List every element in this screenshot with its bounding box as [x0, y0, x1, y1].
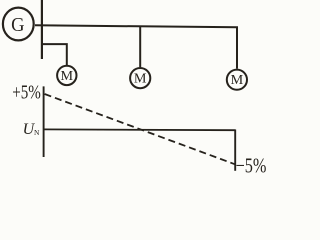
wire: left axis of voltage plot	[43, 86, 45, 157]
wire: right vertical of voltage plot	[234, 130, 236, 171]
motor M3 circle	[227, 70, 247, 90]
wire: nominal voltage UN horizontal line	[44, 128, 236, 131]
motor M1 circle	[57, 66, 76, 85]
wire: drop to motor M2	[139, 26, 141, 67]
svg-text:G: G	[11, 14, 25, 36]
motor M2 circle	[130, 68, 150, 88]
svg-text:−5%: −5%	[236, 154, 266, 177]
svg-text:M: M	[231, 72, 244, 87]
svg-text:M: M	[134, 71, 147, 86]
wire: busbar vertical	[41, 0, 43, 59]
wire: feeder from G to right corner	[35, 25, 237, 68]
svg-text:N: N	[34, 128, 40, 137]
wire: branch to motor M1	[42, 44, 67, 65]
svg-text:M: M	[61, 68, 74, 83]
svg-text:+5%: +5%	[12, 81, 41, 103]
voltage drop dashed line	[45, 94, 235, 164]
generator G1 circle	[3, 8, 34, 41]
